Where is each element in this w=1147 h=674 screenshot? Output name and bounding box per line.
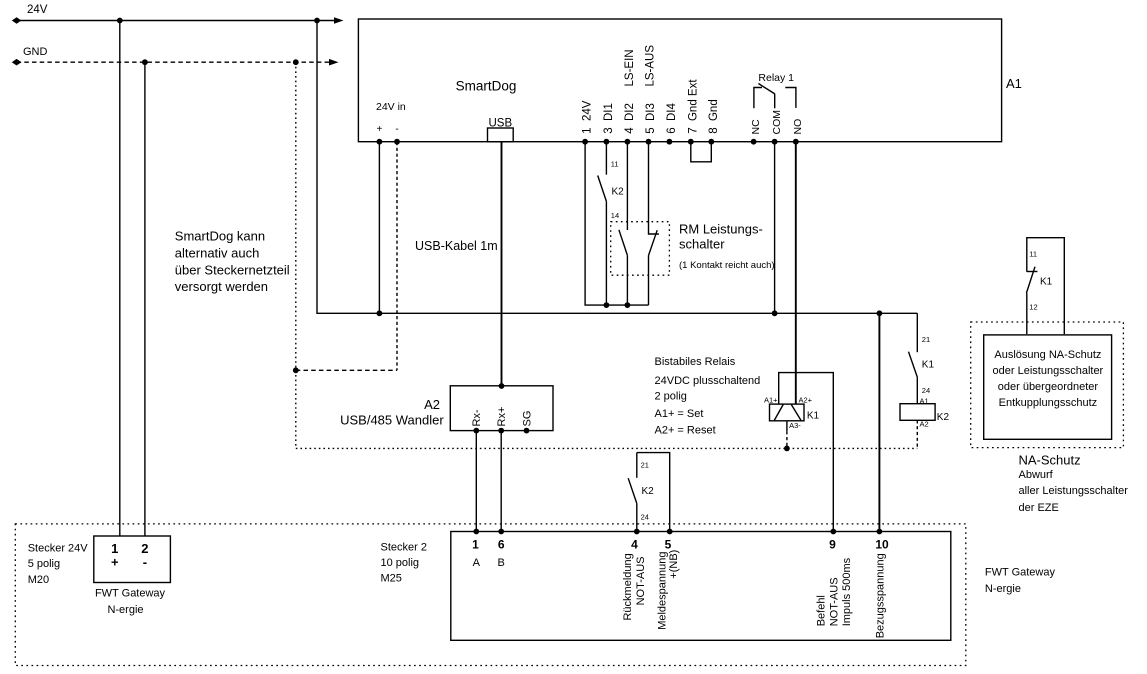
svg-text:N-ergie: N-ergie [985, 583, 1021, 595]
svg-text:Befehl: Befehl [815, 595, 827, 626]
svg-text:versorgt werden: versorgt werden [175, 279, 268, 294]
svg-text:10: 10 [875, 538, 889, 552]
svg-text:M25: M25 [381, 573, 402, 585]
svg-text:A1+ = Set: A1+ = Set [655, 408, 704, 420]
svg-text:K2: K2 [612, 187, 625, 198]
svg-text:Stecker 24V: Stecker 24V [28, 542, 89, 554]
svg-text:-: - [143, 555, 147, 570]
svg-text:4: 4 [631, 538, 638, 552]
svg-text:M20: M20 [28, 574, 49, 586]
svg-text:Auslösung NA-Schutz: Auslösung NA-Schutz [994, 349, 1101, 361]
svg-text:A1: A1 [1006, 76, 1022, 91]
svg-text:Meldespannung: Meldespannung [656, 552, 668, 630]
svg-text:A: A [473, 557, 481, 569]
svg-text:K1: K1 [922, 360, 935, 371]
svg-text:USB-Kabel 1m: USB-Kabel 1m [415, 239, 498, 253]
svg-text:Stecker 2: Stecker 2 [381, 541, 427, 553]
svg-text:Bistabiles Relais: Bistabiles Relais [655, 356, 736, 368]
svg-text:Relay 1: Relay 1 [758, 72, 794, 84]
svg-text:A2+: A2+ [799, 395, 813, 404]
svg-text:NC: NC [750, 119, 762, 135]
svg-text:USB/485 Wandler: USB/485 Wandler [340, 412, 444, 427]
svg-text:6 DI4: 6 DI4 [666, 103, 678, 134]
svg-text:Rückmeldung: Rückmeldung [622, 553, 634, 620]
svg-text:1: 1 [472, 538, 479, 552]
svg-text:FWT Gateway: FWT Gateway [985, 566, 1056, 578]
svg-text:Rx+: Rx+ [496, 407, 508, 427]
svg-text:A3-: A3- [789, 421, 801, 430]
svg-text:FWT Gateway: FWT Gateway [95, 588, 166, 600]
svg-text:K2: K2 [937, 412, 950, 423]
svg-text:24: 24 [922, 386, 930, 395]
svg-text:24: 24 [641, 513, 649, 522]
svg-text:2 polig: 2 polig [655, 391, 687, 403]
svg-text:SG: SG [521, 411, 533, 427]
svg-text:Entkupplungsschutz: Entkupplungsschutz [999, 397, 1097, 409]
svg-text:24V: 24V [27, 4, 48, 16]
svg-text:8 Gnd: 8 Gnd [708, 99, 720, 134]
svg-text:schalter: schalter [679, 237, 725, 252]
svg-text:10 polig: 10 polig [381, 557, 420, 569]
svg-text:B: B [498, 557, 505, 569]
svg-text:A1+: A1+ [764, 395, 778, 404]
svg-text:14: 14 [611, 211, 619, 220]
svg-text:(1 Kontakt reicht auch): (1 Kontakt reicht auch) [679, 260, 775, 271]
svg-text:21: 21 [922, 335, 930, 344]
svg-text:5: 5 [665, 538, 672, 552]
svg-text:RM Leistungs-: RM Leistungs- [679, 222, 763, 237]
svg-text:alternativ auch: alternativ auch [175, 245, 260, 260]
svg-text:24V in: 24V in [376, 101, 406, 113]
svg-text:21: 21 [641, 461, 649, 470]
svg-text:+: + [376, 124, 382, 135]
svg-text:GND: GND [23, 46, 48, 58]
svg-text:A2+ = Reset: A2+ = Reset [655, 425, 716, 437]
svg-text:NOT-AUS: NOT-AUS [635, 556, 647, 605]
svg-text:USB: USB [488, 118, 512, 130]
svg-text:K2: K2 [642, 486, 655, 497]
svg-text:SmartDog kann: SmartDog kann [175, 229, 265, 244]
svg-text:11: 11 [1029, 250, 1037, 259]
svg-text:12: 12 [1029, 303, 1037, 312]
svg-text:SmartDog: SmartDog [456, 79, 517, 94]
svg-text:über Steckernetzteil: über Steckernetzteil [175, 262, 290, 277]
svg-text:24VDC plusschaltend: 24VDC plusschaltend [655, 375, 761, 387]
svg-text:LS-AUS: LS-AUS [644, 45, 656, 87]
svg-text:oder übergeordneter: oder übergeordneter [998, 381, 1099, 393]
svg-text:Rx-: Rx- [471, 409, 483, 426]
svg-text:K1: K1 [807, 411, 820, 422]
svg-text:LS-EIN: LS-EIN [624, 49, 636, 86]
svg-text:7 Gnd Ext: 7 Gnd Ext [687, 79, 699, 134]
svg-text:der EZE: der EZE [1019, 502, 1059, 514]
svg-text:NO: NO [792, 119, 804, 135]
svg-text:N-ergie: N-ergie [107, 604, 143, 616]
svg-text:1 24V: 1 24V [582, 100, 594, 134]
svg-text:-: - [395, 124, 398, 135]
svg-text:aller Leistungsschalter: aller Leistungsschalter [1019, 485, 1129, 497]
svg-text:oder Leistungsschalter: oder Leistungsschalter [993, 365, 1104, 377]
svg-text:Abwurf: Abwurf [1019, 469, 1054, 481]
svg-text:NA-Schutz: NA-Schutz [1019, 452, 1081, 467]
svg-text:3 DI1: 3 DI1 [603, 103, 615, 134]
svg-text:+(NB): +(NB) [668, 550, 680, 579]
svg-text:5 polig: 5 polig [28, 558, 60, 570]
svg-text:A2: A2 [424, 397, 440, 412]
svg-text:Impuls 500ms: Impuls 500ms [841, 557, 853, 626]
svg-text:11: 11 [611, 160, 619, 169]
svg-text:A2: A2 [920, 420, 929, 429]
svg-text:6: 6 [498, 538, 505, 552]
svg-text:+: + [111, 555, 119, 570]
svg-text:NOT-AUS: NOT-AUS [829, 577, 841, 626]
svg-text:5 DI3: 5 DI3 [645, 103, 657, 134]
svg-text:9: 9 [829, 538, 836, 552]
svg-text:COM: COM [771, 110, 783, 135]
svg-text:K1: K1 [1040, 277, 1053, 288]
svg-text:Bezugsspannung: Bezugsspannung [875, 553, 887, 638]
svg-text:4 DI2: 4 DI2 [624, 103, 636, 134]
